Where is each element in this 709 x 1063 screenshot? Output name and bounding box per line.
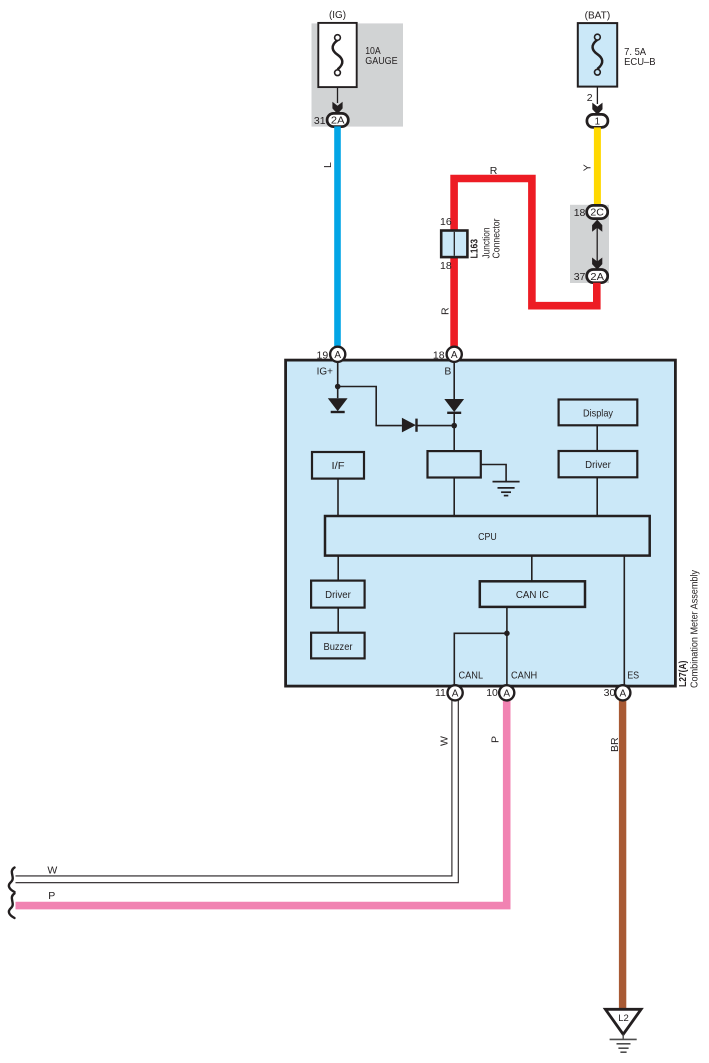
svg-text:JunctionConnector: JunctionConnector (481, 218, 502, 258)
block Buzzer (311, 633, 365, 659)
svg-text:A: A (334, 350, 341, 361)
fuse F1 10A GAUGE body (318, 23, 356, 87)
svg-text:L: L (322, 162, 334, 168)
node junction dot CAN (504, 631, 510, 637)
junction connector L163 (441, 231, 467, 258)
svg-text:2: 2 (587, 92, 593, 104)
wire P pink (CANH) (16, 699, 507, 906)
pin connector circle A (30) (615, 685, 630, 700)
wire IG+ internal (337, 362, 339, 399)
svg-text:10: 10 (486, 687, 498, 699)
connector oval 2C (587, 205, 608, 218)
svg-text:A: A (619, 688, 626, 699)
block CPU (325, 516, 650, 556)
relay block gray box (IG) (312, 23, 404, 126)
svg-text:18: 18 (574, 207, 586, 219)
block Driver (right) (559, 451, 638, 477)
wire branch to CANL pin (454, 633, 507, 685)
diode D2 (B line) (444, 399, 464, 413)
svg-text:Buzzer: Buzzer (324, 642, 353, 653)
node junction dot IG+ (335, 384, 341, 390)
svg-text:Y: Y (581, 164, 593, 171)
wire B internal (453, 362, 455, 399)
svg-text:CPU: CPU (478, 532, 497, 543)
wire fuse F2 to connector 1 (596, 87, 598, 104)
wire CPU to Driver (left) (337, 556, 339, 581)
block I/F (312, 452, 364, 479)
pin connector circle A (10) (499, 685, 514, 700)
svg-text:(BAT): (BAT) (585, 11, 611, 22)
svg-text:L27(A): L27(A) (678, 661, 689, 688)
arrow into connector 2A (332, 102, 342, 114)
wire regulator to ground (481, 465, 506, 482)
svg-text:ECU–B: ECU–B (624, 57, 656, 68)
svg-text:2A: 2A (331, 116, 345, 127)
svg-text:18: 18 (433, 349, 445, 361)
svg-text:CAN IC: CAN IC (516, 590, 549, 601)
connector oval 1 (587, 114, 608, 127)
svg-text:GAUGE: GAUGE (365, 56, 398, 67)
ground bars (610, 1039, 637, 1052)
svg-text:1: 1 (595, 117, 600, 128)
svg-text:L163: L163 (470, 239, 481, 259)
svg-text:A: A (452, 688, 459, 699)
block Driver (left) (311, 581, 365, 608)
diode D1 (IG+ line) (328, 398, 348, 412)
diode D3 (horizontal) (402, 418, 454, 433)
svg-text:(IG): (IG) (329, 10, 346, 21)
svg-text:16: 16 (440, 216, 452, 228)
continuation squiggle W (9, 868, 15, 893)
svg-text:Combination Meter Assembly: Combination Meter Assembly (690, 569, 701, 688)
svg-text:BR: BR (609, 737, 621, 752)
combination meter assembly box L27(A) (286, 360, 676, 686)
svg-text:R: R (440, 307, 452, 315)
svg-text:CANH: CANH (511, 670, 537, 681)
pin connector circle A (19) (330, 347, 345, 362)
continuation squiggle P (9, 894, 15, 919)
wire 2C to 2A with arrows (592, 220, 602, 270)
wire R red (2A to meter pin 18 via junction connector) (454, 179, 597, 348)
wire Display to Driver (596, 425, 598, 451)
ground (internal signal ground) (493, 482, 520, 496)
wire CPU to CAN IC (531, 556, 533, 582)
svg-text:A: A (503, 688, 510, 699)
svg-text:Driver: Driver (585, 460, 611, 471)
svg-text:I/F: I/F (332, 461, 345, 472)
wire Driver to CPU (596, 477, 598, 516)
wire CAN IC to CANH pin (506, 607, 508, 685)
block Display (559, 400, 638, 426)
wire I/F to CPU (337, 479, 339, 516)
wire Y yellow (fuse to 2C) (594, 127, 601, 208)
svg-text:2A: 2A (590, 272, 604, 283)
svg-text:19: 19 (317, 349, 329, 361)
pin connector circle A (11) (448, 685, 463, 700)
connector oval 2A (pin 37) (587, 270, 608, 283)
block CAN IC (480, 581, 585, 607)
svg-text:L2: L2 (618, 1013, 629, 1024)
svg-text:R: R (490, 165, 498, 177)
pin connector circle A (18) (447, 347, 462, 362)
wire regulator to CPU (453, 478, 455, 517)
svg-text:18: 18 (440, 260, 452, 272)
svg-text:P: P (48, 890, 55, 902)
wire BR brown (ES to ground) (619, 699, 626, 1010)
wire Driver to Buzzer (337, 608, 339, 633)
wire branch IG+ to diode D3 (338, 387, 402, 426)
svg-text:IG+: IG+ (317, 366, 333, 377)
svg-text:B: B (444, 366, 451, 377)
fuse F2 7.5A ECU-B body (578, 23, 617, 87)
svg-text:31: 31 (314, 115, 326, 127)
svg-text:Driver: Driver (325, 590, 351, 601)
wire W white double-line (CANL) (16, 699, 459, 883)
svg-text:2C: 2C (590, 208, 604, 219)
svg-text:11: 11 (435, 687, 446, 699)
svg-text:30: 30 (604, 687, 616, 699)
svg-text:P: P (490, 736, 502, 743)
svg-text:W: W (439, 736, 451, 746)
connector oval 2A (pin 31) (327, 113, 348, 126)
block regulator (unnamed) (428, 451, 481, 477)
arrow into connector 1 (592, 103, 602, 115)
wire fuse F1 to connector 2A (337, 87, 339, 103)
ground L2 triangle (605, 1009, 641, 1034)
svg-text:CANL: CANL (459, 670, 484, 681)
svg-text:A: A (451, 350, 458, 361)
node junction dot B (451, 423, 457, 429)
svg-text:ES: ES (627, 670, 639, 681)
connector block gray box 2C/2A (570, 205, 609, 283)
svg-text:Display: Display (583, 408, 614, 419)
ground stem (622, 1034, 624, 1039)
wire L blue (IG to meter pin 19) (334, 126, 341, 347)
svg-text:W: W (47, 865, 57, 877)
wire CPU to ES pin (623, 556, 625, 685)
svg-text:37: 37 (574, 271, 586, 283)
